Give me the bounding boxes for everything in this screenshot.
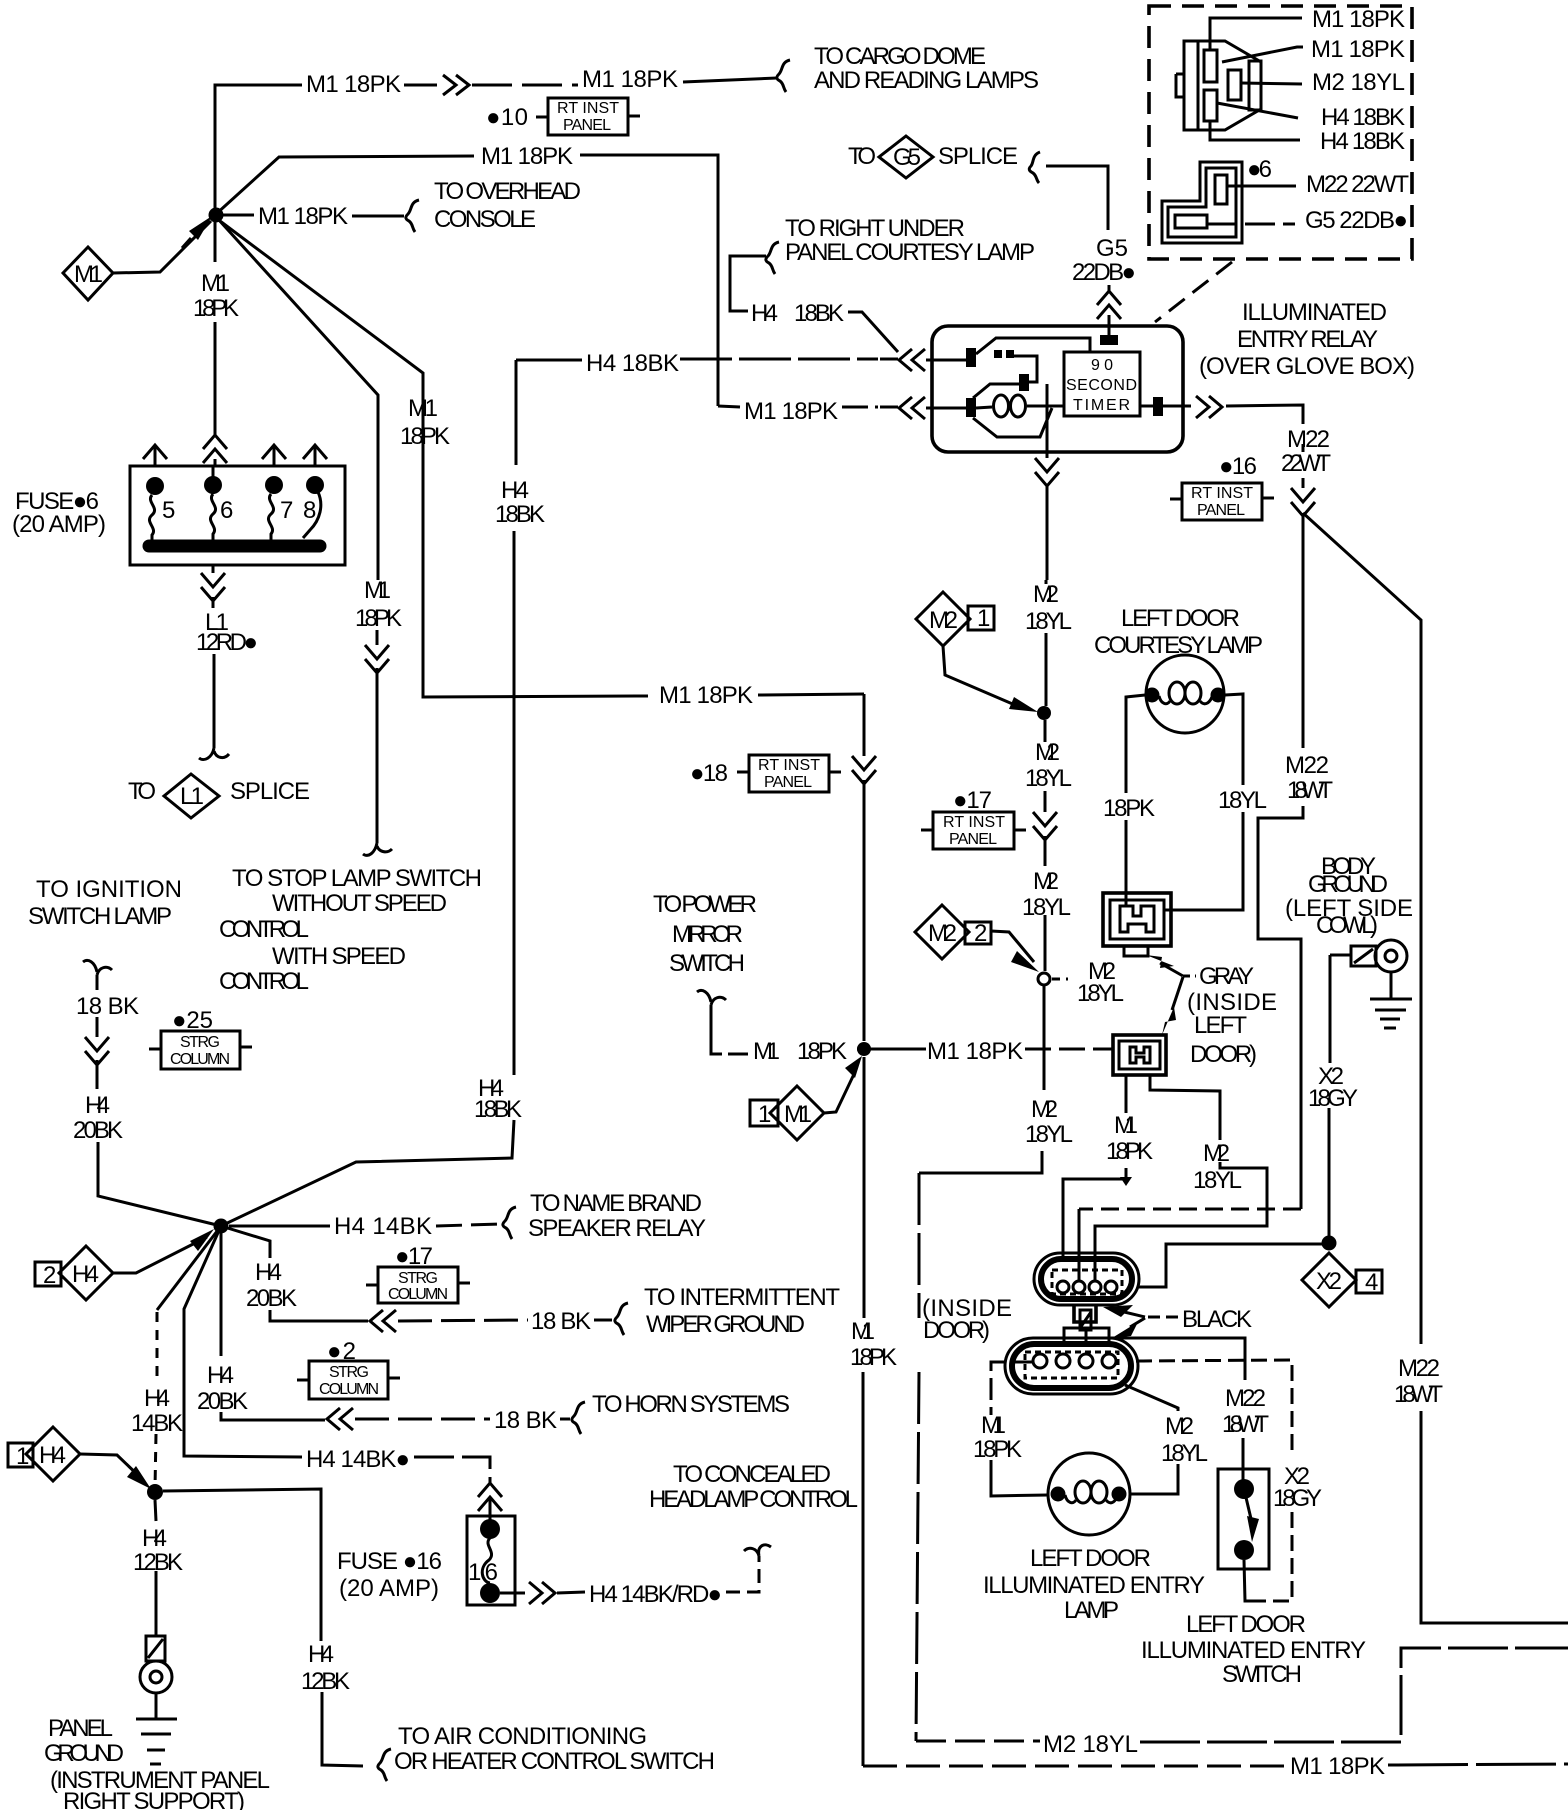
svg-text:WITH SPEED: WITH SPEED <box>272 943 406 970</box>
wire M2 trunk below circle <box>919 985 1044 1173</box>
svg-text:MIRROR: MIRROR <box>672 921 743 948</box>
svg-text:M1 18PK: M1 18PK <box>1312 6 1405 33</box>
wire G5 22DB lead <box>1207 223 1295 226</box>
bus bar <box>149 540 320 553</box>
svg-text:SPLICE: SPLICE <box>230 778 310 805</box>
relay input M1 terminal <box>966 398 976 417</box>
svg-text:SPLICE: SPLICE <box>938 143 1018 170</box>
svg-text:M1: M1 <box>74 261 103 288</box>
wire junction2 ray C 20BK/18BK horn <box>221 1226 325 1420</box>
svg-text:M1 18PK: M1 18PK <box>1290 1753 1385 1780</box>
svg-text:TO: TO <box>848 143 876 170</box>
svg-text:STRG: STRG <box>398 1270 438 1287</box>
svg-text:SECOND: SECOND <box>1066 377 1137 394</box>
svg-text:H4: H4 <box>85 1092 110 1119</box>
SECTION: top labels <box>486 98 1136 352</box>
splice diamond M1 <box>63 247 113 300</box>
illuminated entry relay box <box>932 326 1183 452</box>
splice diamond 1 H4 <box>8 1443 33 1467</box>
svg-text:ILLUMINATED ENTRY: ILLUMINATED ENTRY <box>983 1572 1205 1599</box>
hook ignition <box>83 960 112 975</box>
wire junction1 diag ray to x=423 <box>220 221 648 697</box>
svg-text:1: 1 <box>977 605 990 632</box>
wire 1H4 to junction3 <box>80 1454 143 1480</box>
node junction2 <box>214 1219 229 1234</box>
connector #6 (Z shape) <box>1162 162 1242 243</box>
svg-text:M1 18PK: M1 18PK <box>1311 36 1405 63</box>
svg-text:18YL: 18YL <box>1025 608 1072 635</box>
wire junction1 up and right along y=85 <box>215 85 302 215</box>
svg-text:6: 6 <box>220 497 233 524</box>
svg-text:TO OVERHEAD: TO OVERHEAD <box>434 178 581 205</box>
connector (illuminated entry relay plug) body <box>1184 41 1261 130</box>
svg-text:●18: ●18 <box>690 760 728 787</box>
svg-text:H4 14BK: H4 14BK <box>334 1213 432 1240</box>
wire switch bottom <box>1244 1560 1251 1601</box>
svg-text:(OVER GLOVE BOX): (OVER GLOVE BOX) <box>1199 353 1415 380</box>
svg-text:M2 18YL: M2 18YL <box>1043 1731 1138 1758</box>
pin H4 bottom <box>1204 90 1217 121</box>
svg-text:CONSOLE: CONSOLE <box>434 206 536 233</box>
svg-text:M1 18PK: M1 18PK <box>258 203 348 230</box>
input arrows << for H4 <box>899 349 925 371</box>
svg-text:L1: L1 <box>180 783 204 810</box>
wire from M1 diamond to junction <box>113 221 211 273</box>
svg-text:H4: H4 <box>144 1385 170 1412</box>
svg-text:COWL): COWL) <box>1316 912 1378 939</box>
wire diamond to junction <box>824 1072 855 1113</box>
svg-text:ENTRY RELAY: ENTRY RELAY <box>1237 326 1378 353</box>
relay coil <box>994 395 1009 417</box>
node M2 junction dot <box>1037 706 1051 720</box>
svg-text:H4 18BK: H4 18BK <box>1320 128 1405 155</box>
svg-text:M1 18PK: M1 18PK <box>659 682 753 709</box>
svg-text:22WT: 22WT <box>1281 450 1331 477</box>
svg-text:18PK: 18PK <box>400 423 450 450</box>
svg-text:18PK: 18PK <box>797 1038 847 1065</box>
panel ground symbol <box>146 1636 165 1661</box>
splice diamond 1 M1 <box>750 1100 778 1126</box>
svg-text:TO POWER: TO POWER <box>653 891 757 918</box>
svg-text:18BK: 18BK <box>474 1096 522 1123</box>
hook power mirror <box>697 990 726 1005</box>
svg-text:M2: M2 <box>1165 1413 1194 1440</box>
node junction M1 mid <box>857 1042 871 1056</box>
svg-text:●6: ●6 <box>1247 156 1272 183</box>
relay right terminal <box>1153 397 1163 416</box>
svg-text:H4: H4 <box>207 1362 234 1389</box>
relay M2 output down chevrons <box>1035 458 1059 486</box>
wire gray conn right pin down <box>1095 1075 1267 1280</box>
svg-text:TO NAME BRAND: TO NAME BRAND <box>530 1190 702 1217</box>
input arrows << for M1 <box>899 397 925 419</box>
svg-text:12BK: 12BK <box>133 1549 183 1576</box>
wire M2 2 to node <box>991 931 1034 962</box>
svg-text:M1: M1 <box>851 1318 875 1345</box>
svg-text:BLACK: BLACK <box>1182 1306 1252 1333</box>
wire M2 18YL to entry lamp <box>1125 1385 1178 1494</box>
svg-text:OR HEATER CONTROL SWITCH: OR HEATER CONTROL SWITCH <box>394 1748 715 1775</box>
brace overhead <box>406 200 419 232</box>
oval connector lower (black) <box>1005 1338 1138 1394</box>
pin 7 <box>265 476 283 494</box>
splice diamond X2 4 <box>1302 1253 1356 1307</box>
svg-text:H4: H4 <box>751 300 778 327</box>
node X2 junction <box>1322 1236 1337 1251</box>
wire M22 down with chevrons <box>1258 444 1303 1209</box>
svg-text:●10: ●10 <box>486 104 528 131</box>
svg-text:TO AIR CONDITIONING: TO AIR CONDITIONING <box>398 1723 647 1750</box>
fuse block #6 box <box>130 466 345 565</box>
svg-text:M22: M22 <box>1287 426 1330 453</box>
svg-text:H4: H4 <box>255 1259 282 1286</box>
wire M2 diamond to node <box>943 646 1022 708</box>
wire X2 18GY right of switch <box>1136 1360 1292 1457</box>
svg-text:PANEL: PANEL <box>563 117 611 134</box>
svg-text:M1: M1 <box>753 1038 780 1065</box>
wire X2 down <box>1329 955 1330 1236</box>
svg-text:M1: M1 <box>784 1101 812 1128</box>
wire lamp 18PK into connector <box>1125 893 1128 906</box>
svg-text:18WT: 18WT <box>1222 1411 1269 1438</box>
svg-text:PANEL: PANEL <box>48 1715 113 1742</box>
90 second timer box <box>1064 352 1140 416</box>
svg-text:GROUND: GROUND <box>1308 871 1388 898</box>
svg-text:M22: M22 <box>1285 752 1329 779</box>
svg-text:M1 18PK: M1 18PK <box>582 66 678 93</box>
dashed leader from box to relay <box>1155 262 1232 322</box>
svg-text:18PK: 18PK <box>193 295 239 322</box>
splice diamond 2 H4 <box>35 1262 61 1286</box>
pin 8 <box>306 476 324 494</box>
svg-text:M22: M22 <box>1398 1355 1440 1382</box>
wire M1 18PK lead1 <box>1210 18 1302 50</box>
svg-text:LEFT DOOR: LEFT DOOR <box>1030 1545 1151 1572</box>
svg-text:20BK: 20BK <box>73 1117 123 1144</box>
relay output wire <box>1140 405 1191 408</box>
svg-text:TO CARGO DOME: TO CARGO DOME <box>814 43 986 70</box>
node junction3 <box>147 1484 163 1500</box>
TO RIGHT UNDER PANEL COURTESY LAMP wire <box>730 256 766 311</box>
svg-text:CONTROL: CONTROL <box>219 916 309 943</box>
SECTION: top-left junction <box>63 43 1039 855</box>
svg-text:TIMER: TIMER <box>1073 397 1130 414</box>
svg-text:G5: G5 <box>893 144 921 171</box>
svg-text:G5 22DB●: G5 22DB● <box>1305 207 1408 234</box>
wire gray conn left pin down <box>1063 1075 1126 1258</box>
relay contact to terminal wire <box>1014 356 1037 382</box>
svg-text:18YL: 18YL <box>1077 980 1124 1007</box>
lower connector top tab <box>1064 1328 1109 1344</box>
svg-text:TO STOP LAMP SWITCH: TO STOP LAMP SWITCH <box>232 865 482 892</box>
lamp courtesy circle <box>1146 655 1224 733</box>
svg-text:AND READING LAMPS: AND READING LAMPS <box>814 67 1039 94</box>
relay mid terminal <box>1019 374 1029 391</box>
svg-text:14BK: 14BK <box>131 1410 183 1437</box>
fuse 6 output down <box>212 565 215 608</box>
relay contacts <box>994 350 1002 358</box>
svg-text:HEADLAMP CONTROL: HEADLAMP CONTROL <box>649 1486 858 1513</box>
splice diamond M2 2 <box>915 905 969 959</box>
SECTION: relay <box>516 299 1568 1623</box>
wire junction2 ray B H4 14BK* <box>184 1226 302 1457</box>
splice diamond M2 1 <box>916 592 970 646</box>
wire M2 18YL lead <box>1241 83 1302 84</box>
svg-text:●17: ●17 <box>953 787 992 814</box>
relay armature wire <box>976 338 1090 354</box>
svg-text:M1: M1 <box>981 1412 1006 1439</box>
svg-text:DOOR): DOOR) <box>923 1317 990 1344</box>
wire X2 node to connector pin4 <box>1139 1244 1322 1287</box>
svg-text:PANEL COURTESY LAMP: PANEL COURTESY LAMP <box>785 239 1035 266</box>
svg-text:TO RIGHT UNDER: TO RIGHT UNDER <box>785 215 965 242</box>
pin M2 mid <box>1228 70 1241 100</box>
pin 5 <box>146 477 164 495</box>
hook to G5 wire <box>1029 152 1040 183</box>
svg-text:LEFT: LEFT <box>1194 1012 1247 1039</box>
wire junction3 right then down (H4 12BK to A/C) <box>163 1489 363 1766</box>
svg-text:5: 5 <box>162 497 175 524</box>
svg-text:18PK: 18PK <box>1103 795 1155 822</box>
wire junction1 right y=215 to overhead console <box>223 214 254 217</box>
svg-text:TO CONCEALED: TO CONCEALED <box>673 1461 831 1488</box>
wire M22 18WT to switch <box>1111 1338 1245 1482</box>
hook L1 <box>199 748 229 760</box>
connector tab black <box>1074 1305 1096 1322</box>
svg-text:M1: M1 <box>408 395 438 422</box>
svg-text:H4: H4 <box>142 1525 167 1552</box>
wire M22 22WT lead <box>1227 185 1296 188</box>
wire M22 x1301 to connector (pin2 drop) <box>1078 1209 1081 1281</box>
svg-text:M1 18PK: M1 18PK <box>927 1038 1023 1065</box>
svg-text:18WT: 18WT <box>1394 1381 1443 1408</box>
svg-text:2: 2 <box>43 1262 56 1289</box>
svg-text:H4: H4 <box>39 1442 66 1469</box>
svg-text:SWITCH: SWITCH <box>1222 1661 1302 1688</box>
svg-text:12RD●: 12RD● <box>196 629 258 656</box>
relay top terminal <box>1100 335 1118 345</box>
svg-text:18BK: 18BK <box>495 501 545 528</box>
svg-text:18YL: 18YL <box>1022 894 1071 921</box>
wire junction2 ray A dashed H4 14BK <box>157 1226 221 1310</box>
svg-text:M1: M1 <box>364 577 391 604</box>
arrowhead into junction <box>189 216 212 240</box>
open node circle <box>1038 973 1050 985</box>
svg-text:2: 2 <box>974 920 987 947</box>
svg-text:H4 14BK●: H4 14BK● <box>306 1446 410 1473</box>
svg-text:GROUND: GROUND <box>44 1740 124 1767</box>
svg-text:M1: M1 <box>1114 1112 1138 1139</box>
svg-text:RT INST: RT INST <box>1191 485 1253 502</box>
svg-text:RIGHT SUPPORT): RIGHT SUPPORT) <box>63 1788 245 1810</box>
wire to cargo dome <box>472 84 578 87</box>
svg-text:●16: ●16 <box>1219 453 1257 480</box>
svg-text:GRAY: GRAY <box>1199 963 1254 990</box>
svg-text:RT INST: RT INST <box>758 757 820 774</box>
svg-text:COLUMN: COLUMN <box>388 1286 448 1303</box>
wire junction1 diag to y=155 line <box>215 156 474 215</box>
svg-text:M2: M2 <box>928 920 957 947</box>
svg-text:M2: M2 <box>1031 1096 1058 1123</box>
svg-text:PANEL: PANEL <box>764 774 812 791</box>
relay coil frame <box>973 408 1052 437</box>
dashed detail box <box>1149 6 1412 259</box>
svg-text:ILLUMINATED: ILLUMINATED <box>1242 299 1387 326</box>
svg-text:TO INTERMITTENT: TO INTERMITTENT <box>644 1284 840 1311</box>
svg-text:M2 18YL: M2 18YL <box>1312 69 1405 96</box>
svg-text:M22 22WT: M22 22WT <box>1306 171 1409 198</box>
svg-text:G5: G5 <box>1096 235 1128 262</box>
svg-text:18YL: 18YL <box>1025 1121 1073 1148</box>
ground connector symbol <box>1330 954 1351 957</box>
wire M1 18PK horizontal mid <box>857 1048 926 1051</box>
svg-text:(20 AMP): (20 AMP) <box>339 1575 439 1602</box>
wire lamp right lead 18YL <box>1225 694 1243 893</box>
svg-text:4: 4 <box>1365 1269 1378 1296</box>
double chevron up <box>203 435 227 463</box>
svg-text:M1 18PK: M1 18PK <box>481 143 573 170</box>
svg-text:SPEAKER RELAY: SPEAKER RELAY <box>528 1215 706 1242</box>
wire H4 18BK vertical x=514 <box>221 360 516 1226</box>
svg-text:M2: M2 <box>1033 868 1059 895</box>
svg-text:H4: H4 <box>501 477 529 504</box>
svg-text:SWITCH LAMP: SWITCH LAMP <box>28 903 172 930</box>
svg-text:ILLUMINATED ENTRY: ILLUMINATED ENTRY <box>1141 1637 1366 1664</box>
svg-text:18YL: 18YL <box>1218 787 1267 814</box>
svg-text:M2: M2 <box>929 607 958 634</box>
svg-text:RT INST: RT INST <box>557 100 619 117</box>
lamp illuminated entry circle <box>1048 1453 1130 1535</box>
svg-text:X2: X2 <box>1316 1268 1342 1295</box>
svg-text:COLUMN: COLUMN <box>170 1051 230 1068</box>
svg-text:18 BK: 18 BK <box>76 993 139 1020</box>
svg-text:20BK: 20BK <box>197 1388 248 1415</box>
SECTION: left-lower <box>8 865 858 1810</box>
svg-text:M22: M22 <box>1225 1385 1266 1412</box>
switch box <box>1218 1469 1269 1569</box>
svg-text:18YL: 18YL <box>1193 1167 1242 1194</box>
wire 2H4 to junction2 <box>113 1237 207 1273</box>
wire M1 bottom to right <box>863 1765 1285 1768</box>
wire H4 18BK lead1 <box>1217 103 1298 118</box>
svg-text:18WT: 18WT <box>1287 777 1333 804</box>
svg-text:M2: M2 <box>1035 739 1060 766</box>
svg-text:TO: TO <box>128 778 156 805</box>
svg-text:18GY: 18GY <box>1273 1485 1322 1512</box>
svg-text:18PK: 18PK <box>355 605 402 632</box>
SECTION: bottom <box>922 1253 1366 1688</box>
svg-text:18YL: 18YL <box>1161 1440 1208 1467</box>
gray connector upper <box>1103 893 1171 946</box>
diag wire to right trunk <box>1303 513 1568 1623</box>
pin 6 <box>204 476 222 494</box>
svg-text:(20 AMP): (20 AMP) <box>12 511 106 538</box>
fuse 16 output <box>500 1592 525 1595</box>
node junction1 <box>209 208 224 223</box>
SECTION: mid <box>221 360 1568 1780</box>
wire M1 trunk x=864 <box>863 694 866 1318</box>
svg-text:H4 18BK: H4 18BK <box>586 350 679 377</box>
svg-text:WIPER GROUND: WIPER GROUND <box>646 1311 805 1338</box>
svg-text:M2: M2 <box>1033 581 1059 608</box>
svg-text:PANEL: PANEL <box>1197 502 1245 519</box>
svg-text:LEFT DOOR: LEFT DOOR <box>1121 605 1240 632</box>
wire junction3 down to panel ground <box>155 1500 156 1636</box>
SECTION: connector box <box>1149 6 1412 322</box>
svg-text:H4: H4 <box>308 1641 334 1668</box>
wire junction2 right H4 14BK <box>229 1225 330 1228</box>
svg-text:STRG: STRG <box>180 1034 220 1051</box>
svg-text:18BK: 18BK <box>794 300 844 327</box>
wire junction1 diag ray to x=377 <box>218 219 378 580</box>
svg-text:TO IGNITION: TO IGNITION <box>36 876 182 903</box>
wire H4 18BK lead2 <box>1210 121 1300 140</box>
wire junction2 ray D 20BK/18BK wiper <box>221 1226 368 1321</box>
wire M2 trunk from relay <box>1045 580 1048 706</box>
wire M1 18PK lead2 <box>1222 47 1303 62</box>
svg-text:22DB●: 22DB● <box>1072 259 1136 286</box>
svg-text:PANEL: PANEL <box>949 831 997 848</box>
svg-text:LAMP: LAMP <box>1064 1597 1119 1624</box>
svg-text:1: 1 <box>758 1101 771 1128</box>
brace <box>777 60 790 92</box>
svg-text:18YL: 18YL <box>1025 765 1072 792</box>
svg-text:8: 8 <box>303 497 316 524</box>
wire G5 down to relay <box>1108 285 1111 336</box>
fuse #16 <box>478 1483 502 1511</box>
arrow >> <box>443 75 469 95</box>
ground symbol <box>1390 972 1393 998</box>
svg-text:12BK: 12BK <box>301 1668 350 1695</box>
relay input H4 terminal <box>966 348 976 367</box>
svg-text:RT INST: RT INST <box>943 814 1005 831</box>
wire M2 trunk continues <box>1044 720 1047 971</box>
svg-text:H4: H4 <box>72 1261 99 1288</box>
svg-text:M1: M1 <box>201 270 230 297</box>
hook end stop lamp <box>363 843 392 855</box>
svg-text:18GY: 18GY <box>1308 1085 1358 1112</box>
svg-text:18 BK: 18 BK <box>531 1308 591 1335</box>
svg-text:18 BK: 18 BK <box>494 1407 557 1434</box>
svg-text:COLUMN: COLUMN <box>319 1381 379 1398</box>
svg-text:H4 18BK: H4 18BK <box>1321 104 1405 131</box>
svg-text:M1 18PK: M1 18PK <box>744 398 838 425</box>
svg-text:18PK: 18PK <box>850 1344 897 1371</box>
svg-text:DOOR): DOOR) <box>1190 1041 1257 1068</box>
wire lamp left lead 18PK <box>1126 695 1145 893</box>
svg-text:20BK: 20BK <box>246 1285 297 1312</box>
svg-text:TO HORN SYSTEMS: TO HORN SYSTEMS <box>592 1391 790 1418</box>
pin M1 top <box>1204 50 1217 82</box>
svg-text:WITHOUT SPEED: WITHOUT SPEED <box>272 890 447 917</box>
relay internal switch line down <box>1046 384 1049 458</box>
wire M2 bottom to right <box>916 1740 1040 1743</box>
svg-text:STRG: STRG <box>329 1364 369 1381</box>
svg-text:H4 14BK/RD●: H4 14BK/RD● <box>589 1581 722 1608</box>
svg-text:SWITCH: SWITCH <box>669 950 745 977</box>
wire junction1 down to fuse6 <box>214 222 217 467</box>
svg-text:M2: M2 <box>1203 1140 1230 1167</box>
gray connector lower <box>1113 1035 1166 1075</box>
svg-text:CONTROL: CONTROL <box>219 968 309 995</box>
svg-text:FUSE ●16: FUSE ●16 <box>337 1548 442 1575</box>
arrow >> output <box>1196 396 1222 418</box>
svg-text:7: 7 <box>280 497 293 524</box>
svg-text:18PK: 18PK <box>973 1436 1022 1463</box>
wire M1 18PK to entry lamp <box>991 1362 1033 1412</box>
svg-text:LEFT DOOR: LEFT DOOR <box>1186 1611 1306 1638</box>
svg-text:M1 18PK: M1 18PK <box>306 71 401 98</box>
